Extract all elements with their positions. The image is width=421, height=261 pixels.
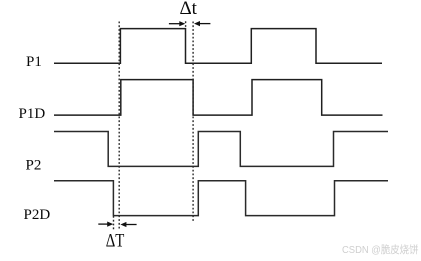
short dotted tick above P1 falling edge — [185, 21, 187, 28]
svg-text:Δt: Δt — [179, 0, 197, 19]
signal P2D waveform — [54, 181, 388, 216]
svg-text:CSDN @脆皮烧饼: CSDN @脆皮烧饼 — [342, 243, 419, 256]
svg-text:P2: P2 — [26, 158, 42, 174]
arrow left of delta-t — [169, 23, 180, 25]
svg-text:P1: P1 — [26, 54, 42, 70]
signal P2 waveform — [54, 132, 388, 167]
short dotted tick below P2D falling edge — [113, 216, 115, 230]
svg-text:P2D: P2D — [24, 207, 51, 223]
dotted reference line at P1D falling edge — [192, 22, 194, 222]
arrow right of delta-t — [200, 23, 211, 25]
signal P1D waveform — [54, 80, 383, 116]
dotted reference line at P1 rising edge — [118, 22, 120, 230]
svg-text:ΔT: ΔT — [106, 231, 125, 252]
arrow left of delta-T — [98, 223, 108, 225]
svg-text:P1D: P1D — [19, 106, 46, 122]
signal P1 waveform — [54, 29, 382, 64]
arrow right of delta-T — [126, 224, 137, 226]
